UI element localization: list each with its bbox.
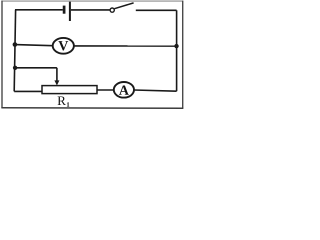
voltmeter V: [53, 38, 74, 54]
border frame (decorative): [1, 0, 183, 2]
node slider junction: [13, 66, 17, 70]
wire right vertical: [176, 10, 178, 91]
wire switch to top-right corner: [136, 9, 177, 11]
wire bottom left: [14, 90, 43, 92]
wire left vertical: [14, 10, 15, 92]
resistor R1 (rheostat box): [42, 86, 97, 94]
node right voltmeter junction: [174, 44, 178, 48]
wire ammeter to bottom-right corner: [134, 90, 177, 91]
battery G1: [64, 2, 70, 21]
node left voltmeter junction: [13, 42, 18, 47]
switch S1: [110, 3, 134, 12]
wire voltmeter row right: [74, 45, 177, 47]
wire top-left horizontal: [15, 9, 63, 11]
wire slider arm vertical with arrowhead: [54, 68, 59, 86]
label R1: [58, 96, 70, 106]
wire voltmeter row left: [15, 45, 53, 46]
wire battery to switch: [71, 9, 110, 11]
wire slider arm horizontal: [15, 67, 57, 69]
ammeter A: [114, 82, 134, 98]
wire box to ammeter: [97, 89, 114, 91]
